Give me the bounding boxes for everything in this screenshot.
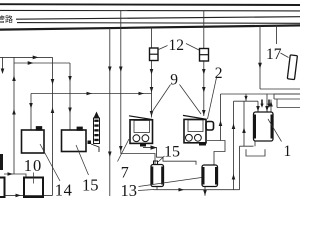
box 15 top nub (77, 127, 82, 130)
leader 14 (40, 144, 60, 181)
unit 9b impeller circles (186, 134, 193, 141)
wire drop x267 into tank 1 (266, 94, 268, 112)
arrow down x267 (265, 106, 269, 112)
tank F (202, 165, 218, 187)
wire horizontal y101 (234, 100, 259, 102)
bus line 5 (0, 25, 300, 29)
component 17 (287, 55, 297, 80)
tank 13 neck (154, 161, 158, 165)
bus line 4 (17, 22, 300, 25)
wire horizontal y94 to coil (221, 93, 301, 95)
leader 10 (33, 173, 35, 184)
wire bus to valve V1 (151, 27, 153, 48)
wire bus to valve V2 (203, 11, 205, 49)
wire tank 1 bottom outlet (240, 142, 256, 147)
wire long vertical x121 into tank 13 neck (121, 10, 155, 164)
arrow down x121 top (119, 67, 123, 73)
arrow down x151 c (150, 111, 154, 117)
wire bottom collector y190 (154, 189, 240, 191)
svg-text:14: 14 (55, 181, 73, 200)
arrow down tick a (260, 104, 263, 108)
tank 13 (151, 165, 164, 187)
tray under tank 1 (246, 149, 265, 156)
arrow right y63 (28, 61, 34, 65)
left-edge component (cut) (0, 154, 3, 170)
arrow right into box 10 (8, 172, 14, 176)
unit 9a bottom nub (140, 143, 146, 147)
arrow right y57 (33, 56, 39, 60)
wire stub x246 (245, 94, 247, 101)
arrow down x110 a (108, 67, 112, 73)
box 10 (24, 178, 43, 198)
arrow down tick b (267, 104, 270, 108)
arrow right y195 (16, 194, 22, 198)
wire bottom left y195 (4, 194, 53, 196)
arrow right y93 b (139, 92, 145, 96)
leader 1 (268, 119, 282, 142)
unit 9b bottom nub (199, 143, 206, 146)
leader 15 bottom-left (76, 145, 89, 175)
leader 9 right (180, 85, 202, 115)
bus line 1 (0, 3, 300, 6)
arrow down x2 (1, 69, 5, 75)
arrow down x203 c (202, 110, 206, 116)
valve 12b (200, 49, 209, 62)
arrow down x258 (256, 106, 260, 112)
unit 9b lid (183, 115, 206, 119)
leader 13 long (139, 178, 202, 187)
column bottom elbow (88, 141, 92, 145)
arrow down x203 b (202, 87, 206, 93)
arrow up x234 a (232, 124, 236, 130)
wire long vertical x110 (109, 28, 111, 196)
box 14 top nub (37, 127, 42, 130)
wire horizontal y57 (0, 56, 53, 58)
unit 9a body (130, 120, 153, 144)
leader 12 left (158, 46, 168, 51)
wire unit 9a outlet to tank F (143, 148, 196, 165)
wire vertical x244 riser (240, 101, 245, 190)
arrow down x260 (258, 63, 262, 69)
wire bus drop x260 to coil (259, 25, 261, 89)
bus line 3 (16, 17, 300, 20)
arrow down x31 (29, 103, 33, 109)
wire vertical x234 riser (233, 101, 235, 190)
wire tank F drain (204, 187, 206, 196)
leader 2 (208, 78, 217, 120)
svg-text:管路: 管路 (0, 14, 13, 24)
svg-text:17: 17 (266, 46, 282, 63)
arrow down x151 a (150, 69, 154, 75)
tank 1 (254, 112, 274, 141)
wire vertical x52 (52, 57, 54, 195)
column top (94, 112, 100, 119)
wire horizontal y63 (14, 62, 70, 64)
arrow down x52 (51, 79, 55, 85)
arrow right y190 (179, 188, 185, 192)
arrow up x271 (269, 101, 273, 107)
wire tank 13 bottom stub (156, 187, 158, 190)
condenser coil lines (260, 89, 300, 108)
box 14 (22, 130, 45, 153)
svg-text:1: 1 (284, 143, 292, 160)
wire vertical x220 (220, 94, 222, 141)
leader 15 middle (158, 156, 165, 162)
leader 9 left (151, 85, 171, 114)
arrow down x246 (244, 96, 247, 101)
arrow up x52 (51, 108, 55, 114)
unit 9b inner liner (188, 120, 203, 132)
leader 13 short (138, 190, 154, 191)
wire tank 1 vent x271 (270, 100, 272, 113)
column body (94, 118, 100, 144)
arrow up x234 b (232, 174, 236, 180)
column bands (94, 120, 98, 142)
coil drop ticks (262, 100, 269, 106)
unit 9a impeller circles (133, 135, 140, 142)
wire horizontal y93 (31, 93, 152, 95)
arrow down x110 b (108, 152, 112, 158)
svg-text:15: 15 (82, 175, 99, 194)
leader 12 right (186, 44, 199, 51)
wire valve V2 to unit 9b (203, 61, 205, 116)
arrow down x70 b (68, 108, 72, 114)
arrow down x151 b (150, 87, 154, 93)
wire into box 10 (4, 174, 26, 178)
wire bus drop x276 (276, 25, 278, 44)
valve 12a (150, 48, 159, 61)
box left edge (cut) (0, 178, 5, 198)
wire unit 9b outlet jog into tank F (207, 141, 225, 165)
bus line 2 (0, 9, 300, 12)
arrow up x14 a (12, 76, 16, 82)
svg-text:15: 15 (164, 144, 180, 161)
arrow up x220 (219, 121, 223, 127)
leader 7 (118, 139, 130, 162)
wire drop x258 into tank 1 (257, 101, 259, 112)
svg-text:9: 9 (170, 71, 178, 88)
leader 17 (281, 53, 289, 58)
arrow down tank F drain (203, 190, 207, 196)
svg-text:13: 13 (121, 181, 138, 200)
wire valve V1 to unit 9a (151, 61, 153, 118)
unit 9a inner liner (134, 120, 150, 132)
wire vertical x14 (13, 57, 15, 174)
arrow down x121 (119, 146, 123, 152)
arrow up x244 (242, 128, 246, 134)
svg-text:12: 12 (169, 37, 185, 54)
arrow down x70 (68, 76, 72, 82)
unit 9b body (184, 119, 206, 142)
unit 9b side valve 2 (206, 122, 214, 131)
svg-text:10: 10 (24, 156, 43, 175)
arrow down x203 a (202, 69, 206, 75)
unit 9a lid (129, 116, 153, 120)
arrow right y93 a (87, 92, 93, 96)
wire vertical x70 into box 15 (69, 63, 71, 130)
svg-text:7: 7 (121, 165, 129, 182)
svg-text:2: 2 (215, 65, 223, 82)
arrow up x14 b (12, 109, 16, 115)
wire vertical x2 stub (2, 57, 4, 72)
wire vertical x31 into box 14 (30, 94, 32, 131)
arrow right unit 9a outlet (151, 145, 158, 149)
box 15 (62, 130, 87, 152)
